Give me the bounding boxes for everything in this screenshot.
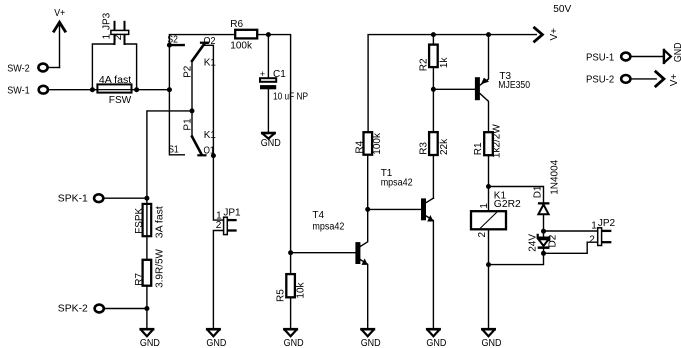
node SPK-1 junction xyxy=(144,196,149,201)
node SW-1/JP3 junction xyxy=(90,87,95,92)
node O1 junction xyxy=(211,153,216,158)
ground under T4 xyxy=(362,329,374,336)
wire T3 base xyxy=(433,88,475,90)
svg-text:2: 2 xyxy=(113,34,124,40)
svg-text:2: 2 xyxy=(589,234,595,245)
svg-text:P2: P2 xyxy=(183,65,194,78)
wire R6 to C1 junction xyxy=(257,35,290,253)
resistor R6 xyxy=(235,30,257,39)
node SPK-2 junction xyxy=(144,306,149,311)
wire top rail from S2 corner to R6 xyxy=(169,35,235,46)
svg-text:GND: GND xyxy=(673,43,681,63)
node T4 base junction xyxy=(288,250,293,255)
diode D1 1N4004 xyxy=(538,202,550,214)
svg-text:SPK-2: SPK-2 xyxy=(58,304,88,315)
svg-text:FSW: FSW xyxy=(109,95,132,106)
svg-text:1: 1 xyxy=(591,221,597,232)
svg-text:3A fast: 3A fast xyxy=(154,206,165,238)
svg-text:D1: D1 xyxy=(533,185,544,198)
wire to R5 xyxy=(290,253,292,274)
terminal SPK-1 xyxy=(94,194,147,202)
svg-text:SW-1: SW-1 xyxy=(7,86,30,97)
svg-text:R6: R6 xyxy=(230,19,243,30)
ground under R5 xyxy=(284,329,296,336)
resistor R3 xyxy=(429,132,438,155)
jumper JP1 xyxy=(224,217,236,234)
wire top rail right section xyxy=(368,35,536,133)
svg-text:V+: V+ xyxy=(549,28,560,41)
svg-text:2: 2 xyxy=(216,220,222,231)
wire O2 contact down to O1 and GND xyxy=(205,45,223,220)
svg-text:+: + xyxy=(260,69,265,79)
svg-text:24V: 24V xyxy=(527,234,538,252)
transistor T4 mpsa42 xyxy=(355,209,367,329)
svg-text:R3: R3 xyxy=(418,142,429,155)
wire D2 to bottom node xyxy=(543,249,545,253)
node R6/C1 junction xyxy=(266,32,271,37)
power arrow V+ 50V rail xyxy=(535,28,543,42)
power arrow V+ top-left xyxy=(54,22,65,67)
wire relay pin1 xyxy=(488,187,490,212)
jumper JP3 xyxy=(111,22,129,44)
svg-text:GND: GND xyxy=(361,338,381,348)
svg-text:G2R2: G2R2 xyxy=(494,199,521,210)
ground under C1 xyxy=(262,133,274,139)
wire JP2 pin2 xyxy=(544,242,598,253)
svg-text:R4: R4 xyxy=(355,140,366,153)
node rail T3 junction xyxy=(486,32,491,37)
wire R3 to T1 collector xyxy=(432,155,434,198)
wire R2 to base node xyxy=(432,67,434,132)
ground under T1 xyxy=(427,329,439,336)
wire R5 to GND xyxy=(290,297,292,329)
svg-text:GND: GND xyxy=(206,338,226,348)
wire C1 bottom to GND xyxy=(267,89,269,133)
svg-text:10 uF NP: 10 uF NP xyxy=(273,91,308,102)
svg-text:S2: S2 xyxy=(167,35,178,46)
terminal PSU-1 xyxy=(621,53,663,61)
svg-text:GND: GND xyxy=(426,338,446,348)
ground under relay xyxy=(482,329,494,336)
wire relay pin2 to GND xyxy=(488,229,490,329)
wire FSPK to R7 xyxy=(146,236,148,260)
svg-text:GND: GND xyxy=(482,338,502,348)
svg-text:C1: C1 xyxy=(273,69,286,80)
wire pin2 node to D2 bottom xyxy=(489,253,544,264)
svg-text:22k: 22k xyxy=(439,138,450,155)
ground under SPK-2 xyxy=(141,329,153,336)
capacitor C1 xyxy=(260,78,276,89)
svg-text:JP1: JP1 xyxy=(223,207,241,218)
wire fuse to switch left line xyxy=(132,89,170,91)
svg-text:1k: 1k xyxy=(439,57,450,69)
wire JP3 pin1 loop xyxy=(92,44,114,90)
svg-text:K1: K1 xyxy=(204,58,217,69)
contact S2 stub xyxy=(169,44,183,46)
svg-text:1: 1 xyxy=(102,33,113,39)
switch arm P2-O2 (relay contact K1) xyxy=(192,43,208,61)
wire SW-1 to fuse FSW xyxy=(48,89,97,91)
node T3 base junction xyxy=(431,87,436,92)
ground right of PSU-1 xyxy=(664,50,671,63)
svg-text:1: 1 xyxy=(479,203,490,209)
node rail R2 junction xyxy=(431,32,436,37)
node relay pin2 junction xyxy=(486,262,491,267)
svg-text:4A fast: 4A fast xyxy=(99,75,132,86)
resistor R7 xyxy=(143,260,152,286)
svg-text:2: 2 xyxy=(477,232,488,238)
svg-text:GND: GND xyxy=(284,338,304,348)
node T1 base junction xyxy=(365,207,370,212)
power arrow V+ PSU-2 xyxy=(656,72,664,86)
switch arm P1-O1 (relay contact K1) xyxy=(192,137,205,156)
svg-text:1k2/2W: 1k2/2W xyxy=(492,124,503,158)
svg-text:mpsa42: mpsa42 xyxy=(312,221,344,232)
terminal SW-2 xyxy=(38,64,59,72)
node fuse right junction xyxy=(134,87,139,92)
svg-text:V+: V+ xyxy=(669,74,680,87)
svg-text:100k: 100k xyxy=(230,40,253,51)
svg-text:D2: D2 xyxy=(548,234,559,247)
svg-text:SW-2: SW-2 xyxy=(7,63,30,74)
wire R7 to SPK-2 node xyxy=(146,286,148,330)
svg-text:PSU-2: PSU-2 xyxy=(586,75,615,86)
svg-text:100k: 100k xyxy=(372,132,383,155)
svg-text:R7: R7 xyxy=(134,272,145,285)
svg-text:GND: GND xyxy=(261,138,281,149)
svg-text:JP2: JP2 xyxy=(598,218,616,229)
wire C1 top xyxy=(267,35,269,78)
zener diode D2 24V xyxy=(538,235,550,249)
resistor R4 xyxy=(364,132,373,155)
svg-text:FSPK: FSPK xyxy=(134,207,145,233)
wire JP2 pin1 xyxy=(544,230,598,232)
wire D1 to D2 node xyxy=(543,214,545,237)
wire R4 to T1 base junction xyxy=(367,155,369,210)
node S2 junction xyxy=(167,43,172,48)
svg-text:T4: T4 xyxy=(312,210,324,221)
svg-text:3.9R/5W: 3.9R/5W xyxy=(154,248,165,287)
svg-text:S1: S1 xyxy=(168,145,179,156)
wire pole to SPK-1 xyxy=(147,111,192,198)
relay coil K1 G2R2 xyxy=(471,211,506,229)
svg-text:V+: V+ xyxy=(54,8,65,19)
wire JP1 pin2 down to GND xyxy=(213,231,223,330)
svg-text:K1: K1 xyxy=(204,130,217,141)
node D2 bottom junction xyxy=(541,251,546,256)
svg-text:R2: R2 xyxy=(418,58,429,71)
fuse FSW xyxy=(97,84,131,92)
svg-text:MJE350: MJE350 xyxy=(498,80,530,91)
transistor T3 MJE350 xyxy=(475,35,489,133)
resistor R5 xyxy=(286,274,295,297)
svg-text:50V: 50V xyxy=(553,4,571,15)
svg-text:O1: O1 xyxy=(204,145,215,156)
resistor R1 xyxy=(484,132,493,155)
node D1/D2/JP2 junction xyxy=(541,229,546,234)
wire T4 base xyxy=(291,252,356,254)
wire JP3 pin2 loop xyxy=(125,44,137,90)
terminal PSU-2 xyxy=(621,75,656,83)
svg-text:1N4004: 1N4004 xyxy=(550,159,561,194)
fuse FSPK xyxy=(143,198,152,236)
node pole junction xyxy=(190,108,195,113)
svg-text:PSU-1: PSU-1 xyxy=(586,52,615,63)
svg-text:R1: R1 xyxy=(473,142,484,155)
wire switch common line S2-S1 xyxy=(169,45,184,155)
svg-text:JP3: JP3 xyxy=(101,12,112,30)
node R1/relay/D1 junction xyxy=(486,184,491,189)
ground under O1 line xyxy=(207,329,219,336)
wire R1 to relay node xyxy=(488,155,490,186)
svg-text:GND: GND xyxy=(140,338,160,348)
resistor R2 xyxy=(429,45,438,68)
transistor T1 mpsa42 xyxy=(421,198,433,329)
svg-text:mpsa42: mpsa42 xyxy=(381,177,413,188)
svg-text:SPK-1: SPK-1 xyxy=(58,193,88,204)
wire relay node to D1 xyxy=(489,187,544,203)
svg-text:P1: P1 xyxy=(183,118,194,131)
svg-text:R5: R5 xyxy=(275,289,286,302)
jumper JP2 xyxy=(598,228,611,246)
terminal SPK-2 xyxy=(95,305,147,313)
svg-text:10k: 10k xyxy=(296,281,307,298)
wire T1 base xyxy=(368,208,421,210)
wire rail to R2 xyxy=(432,35,434,45)
node SW-1 line junction xyxy=(167,87,172,92)
svg-text:O2: O2 xyxy=(204,36,216,47)
switch pole wire P2-P1 xyxy=(191,61,193,137)
terminal SW-1 xyxy=(39,86,48,94)
